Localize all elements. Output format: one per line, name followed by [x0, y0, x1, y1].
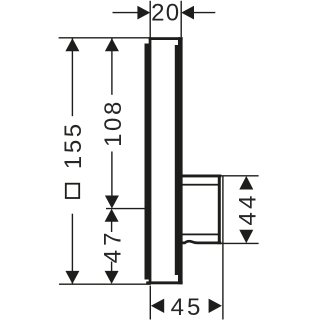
valve body lower inner line [181, 234, 220, 236]
plate bottom edge [146, 281, 182, 284]
valve centerline [106, 208, 146, 210]
dim 44 down arrow [239, 230, 253, 244]
dim 47 upper line segment [111, 222, 113, 233]
valve body bottom edge with bump [181, 241, 222, 243]
dim 45 left arrow [151, 299, 164, 313]
svg-text:44: 44 [234, 192, 261, 225]
dim 44 up arrow [239, 176, 253, 190]
dim 108 down arrow [105, 196, 119, 209]
dim 20 right arrow and tail [194, 12, 216, 14]
valve body right edge [218, 175, 221, 245]
svg-text:20: 20 [151, 0, 180, 27]
svg-text:45: 45 [171, 294, 204, 320]
dim 155 down arrow [65, 271, 79, 284]
top-left horizontal extension line [59, 37, 151, 39]
dim 108 up arrow [105, 38, 119, 51]
dim 47 down arrow [105, 271, 119, 284]
plate top edge [149, 37, 183, 40]
valve body top edge [181, 175, 222, 178]
dim 45 left extension line [149, 286, 151, 320]
dim 44 top extension line [221, 175, 259, 177]
plate right inner line [175, 45, 178, 275]
plate right outer edge [178, 37, 183, 284]
svg-text:47: 47 [99, 229, 126, 264]
dim 155 up arrow [65, 38, 79, 51]
dim 20 left extension line [149, 1, 151, 38]
dim 155 upper line segment [71, 38, 73, 116]
dim 20 left arrow and tail [113, 12, 139, 14]
dim 20 right extension line [180, 1, 182, 37]
dim 47 up arrow [105, 209, 119, 222]
plate left inner line [149, 40, 152, 283]
dim 47 lower line segment [111, 262, 113, 272]
dim 44 bottom extension line [221, 242, 259, 244]
dim 108 lower line segment [111, 152, 113, 197]
plate left outer edge [145, 44, 150, 280]
dim 45 right arrow [209, 299, 222, 313]
dim 45 right extension line [222, 177, 224, 320]
dim 108 upper line segment [111, 38, 113, 95]
dim 155 lower line segment [71, 214, 73, 284]
valve body upper inner line [181, 184, 220, 186]
svg-text:108: 108 [100, 99, 127, 147]
svg-text:155: 155 [60, 121, 87, 169]
bottom-left horizontal extension line [59, 283, 151, 285]
square symbol [66, 184, 79, 198]
